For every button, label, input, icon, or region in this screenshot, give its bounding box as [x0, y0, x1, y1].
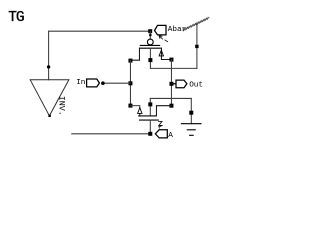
transistor PMOS bulk lead [149, 48, 151, 68]
pin dot on gate lead [149, 34, 151, 36]
svg-text:In: In [76, 79, 85, 87]
node PMOS drain junction [169, 58, 173, 62]
mark small dash right of squiggle [165, 40, 168, 42]
wire right rail (drain / Out net) [170, 60, 172, 106]
wire hatched diagonal (unrouted arc) [184, 17, 210, 31]
transistor NMOS channel [139, 115, 156, 117]
transistor PMOS right leg [161, 48, 171, 59]
pin dot inverter output apex [48, 115, 50, 117]
wire Abar top horizontal [49, 30, 151, 32]
wire inverter input vertical [48, 31, 50, 80]
export In pentagon [87, 79, 100, 87]
pin dot on right column [195, 45, 198, 48]
transistor NMOS bulk lead from bus [149, 98, 151, 115]
node PMOS source corner [128, 59, 132, 63]
transistor PMOS bubble [147, 39, 153, 45]
mark Z squiggle near NMOS gate [159, 121, 163, 125]
wire PMOS gate lead [149, 31, 151, 39]
ground bar 1 [181, 123, 201, 125]
transistor PMOS gate plate [140, 44, 159, 46]
svg-text:Out: Out [189, 82, 203, 90]
wire Out bus (bulk/ground net) [150, 97, 191, 99]
node NMOS source wire corner [128, 104, 132, 108]
transistor NMOS gate lead [149, 120, 151, 134]
pin dot on NMOS bulk lead [148, 102, 152, 106]
pin dot PMOS bulk [148, 58, 152, 62]
pin dot ground lead [189, 111, 193, 115]
svg-text:A: A [168, 132, 173, 140]
op-amp inverter triangle [30, 80, 69, 116]
export Abar pentagon [155, 25, 167, 35]
mark small squiggle under Abar pentagon [159, 36, 163, 39]
wire left rail [129, 60, 131, 105]
transistor NMOS gate plate [140, 119, 159, 121]
export A pentagon [155, 130, 167, 138]
wire Abar-net link to right column [150, 67, 197, 69]
wire bottom A net [72, 133, 151, 135]
transistor NMOS source arrow [138, 108, 142, 116]
node Abar junction [148, 29, 152, 33]
node right rail bottom [169, 104, 173, 108]
node Out tap [169, 82, 173, 86]
pin dot on inverter input wire [47, 65, 50, 68]
node A junction [148, 132, 152, 136]
svg-text:TG: TG [8, 10, 24, 26]
transistor PMOS left leg [130, 48, 139, 60]
mark small arrow under Z [159, 126, 161, 128]
wire ground lead [190, 98, 192, 123]
transistor PMOS channel [140, 47, 162, 49]
wire In horizontal [103, 82, 131, 84]
transistor PMOS source arrow [159, 50, 163, 56]
node In junction [128, 81, 132, 85]
ground bar 2 [187, 129, 195, 131]
pin dot In wire end [101, 81, 105, 85]
export Out pentagon [171, 80, 186, 88]
wire NMOS source from left rail [130, 106, 139, 108]
wire right column from diagonal [196, 23, 198, 68]
transistor NMOS drain lead [156, 106, 171, 116]
ground bar 3 [190, 134, 194, 136]
svg-text:INV.: INV. [56, 96, 65, 116]
